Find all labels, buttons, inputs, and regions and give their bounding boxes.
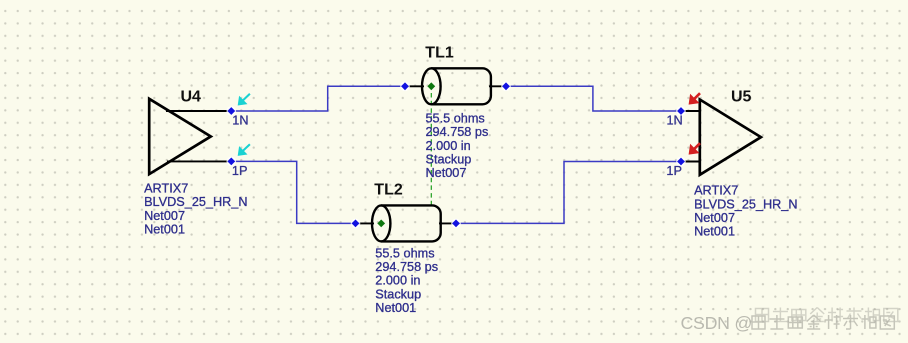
svg-text:2.000 in: 2.000 in <box>426 139 471 153</box>
svg-text:TL2: TL2 <box>374 182 403 199</box>
svg-text:294.758 ps: 294.758 ps <box>375 260 438 274</box>
svg-text:294.758 ps: 294.758 ps <box>426 125 489 139</box>
svg-text:TL1: TL1 <box>425 44 454 61</box>
svg-text:2.000 in: 2.000 in <box>375 274 420 288</box>
svg-text:U5: U5 <box>731 88 752 105</box>
svg-text:1P: 1P <box>232 164 248 178</box>
svg-text:Net001: Net001 <box>694 225 735 239</box>
svg-text:Net007: Net007 <box>694 211 735 225</box>
svg-text:Net007: Net007 <box>144 209 185 223</box>
svg-text:1P: 1P <box>666 164 682 178</box>
svg-text:BLVDS_25_HR_N: BLVDS_25_HR_N <box>144 195 247 209</box>
svg-text:U4: U4 <box>181 88 202 105</box>
svg-text:BLVDS_25_HR_N: BLVDS_25_HR_N <box>694 197 797 211</box>
svg-text:1N: 1N <box>667 114 683 128</box>
svg-text:55.5 ohms: 55.5 ohms <box>426 112 485 126</box>
svg-text:ARTIX7: ARTIX7 <box>694 184 738 198</box>
svg-text:1N: 1N <box>232 114 248 128</box>
svg-text:Net001: Net001 <box>144 223 185 237</box>
svg-text:CSDN @: CSDN @ <box>681 313 753 333</box>
svg-text:ARTIX7: ARTIX7 <box>144 182 188 196</box>
svg-text:55.5 ohms: 55.5 ohms <box>375 246 434 260</box>
svg-text:Net007: Net007 <box>426 166 467 180</box>
svg-text:Stackup: Stackup <box>375 287 421 301</box>
svg-text:Net001: Net001 <box>375 301 416 315</box>
svg-text:Stackup: Stackup <box>426 153 472 167</box>
